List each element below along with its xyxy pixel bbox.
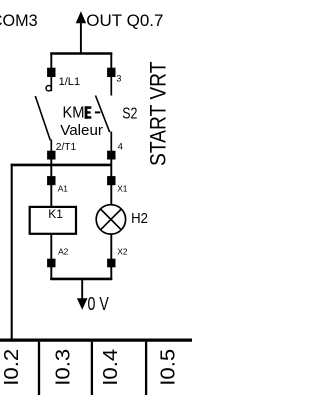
wire junction row [11, 164, 112, 167]
contact S2 blade [96, 96, 110, 133]
wire bottom join [50, 278, 112, 281]
contact S2 bottom stub [110, 132, 112, 152]
svg-text:2/T1: 2/T1 [56, 142, 77, 153]
terminal square 1/L1 [47, 68, 55, 77]
wire below X2 [110, 267, 112, 280]
bus line (table top) [0, 338, 192, 341]
svg-text:COM3: COM3 [0, 12, 38, 30]
svg-text:S2: S2 [122, 105, 137, 122]
power flag arrow OUT Q0.7 [76, 11, 86, 54]
text cursor box glyph [85, 106, 92, 118]
terminal square 4 [107, 151, 115, 160]
terminal square 3 [107, 68, 115, 77]
lamp H2 [96, 205, 125, 234]
wire below coil [50, 234, 52, 260]
wire left drop to bus [11, 164, 13, 341]
svg-text:1/L1: 1/L1 [59, 76, 81, 88]
wire below A2 [50, 267, 52, 280]
svg-text:OUT Q0.7: OUT Q0.7 [86, 11, 163, 30]
contact KM1 fixed terminal with hook [46, 77, 51, 91]
terminal square X2 [107, 259, 115, 268]
terminal square A1 [47, 176, 55, 185]
svg-text:I0.5: I0.5 [156, 349, 179, 386]
table separator 1 [38, 342, 40, 395]
svg-text:Valeur: Valeur [60, 122, 103, 139]
wire left branch top [50, 53, 52, 68]
svg-text:H2: H2 [131, 210, 148, 227]
svg-text:K1: K1 [48, 207, 63, 221]
contact KM1 blade [35, 96, 50, 140]
svg-text:KM: KM [63, 104, 85, 121]
svg-text:I0.3: I0.3 [51, 349, 74, 386]
table separator 3 [145, 342, 147, 395]
svg-text:X1: X1 [117, 183, 128, 193]
wire top branch [50, 52, 112, 55]
wire right branch middle [110, 159, 112, 205]
svg-text:4: 4 [118, 141, 123, 152]
svg-text:I0.4: I0.4 [99, 349, 122, 386]
contact S2 fixed terminal [110, 77, 112, 96]
wire right branch top [110, 53, 112, 68]
terminal square X1 [107, 176, 115, 185]
svg-text:3: 3 [116, 74, 121, 84]
0V stem and arrow [77, 279, 88, 310]
terminal square 2/T1 [47, 151, 55, 160]
svg-text:I0.2: I0.2 [0, 349, 23, 386]
contact KM1 bottom stub [50, 140, 52, 152]
svg-text:A2: A2 [58, 246, 69, 256]
coil K1 box [30, 207, 76, 234]
svg-text:0 V: 0 V [88, 293, 110, 314]
wire left branch middle [50, 159, 52, 207]
wire below lamp [110, 234, 112, 259]
dash (actuator link) [95, 111, 100, 113]
svg-text:A1: A1 [58, 183, 69, 193]
terminal square A2 [47, 259, 55, 268]
svg-text:X2: X2 [117, 246, 128, 256]
table separator 2 [91, 342, 93, 395]
svg-text:START VRT: START VRT [145, 62, 170, 167]
